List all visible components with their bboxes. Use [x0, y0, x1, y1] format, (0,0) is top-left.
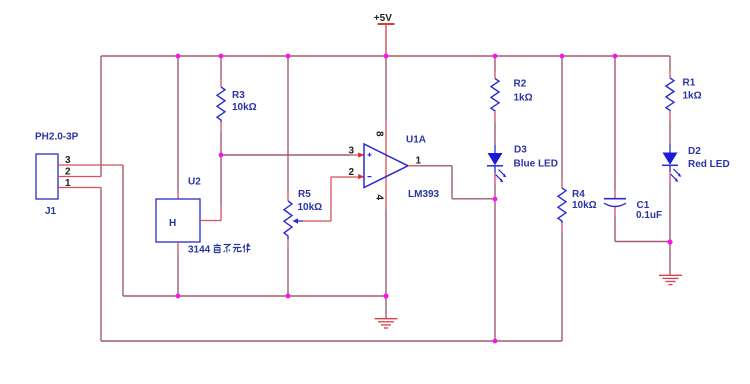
svg-text:1: 1 — [416, 156, 422, 167]
resistor R1 — [666, 78, 702, 112]
svg-text:LM393: LM393 — [408, 189, 440, 200]
svg-text:U1A: U1A — [406, 135, 426, 146]
svg-text:3: 3 — [349, 146, 355, 157]
wire U2 bottom — [177, 242, 179, 253]
svg-text:R1: R1 — [683, 78, 696, 89]
wire R2 top — [494, 56, 496, 71]
svg-text:R2: R2 — [514, 79, 527, 90]
svg-text:U2: U2 — [188, 177, 201, 188]
svg-text:D3: D3 — [514, 145, 527, 156]
capacitor C1 — [604, 199, 662, 221]
svg-text:3: 3 — [65, 155, 71, 166]
wire U2 top — [177, 56, 179, 190]
svg-text:J1: J1 — [45, 206, 57, 217]
svg-text:0.1uF: 0.1uF — [636, 210, 662, 221]
wire node A to op-amp +in — [221, 154, 350, 156]
svg-text:4: 4 — [374, 195, 385, 201]
wire C1 bottom — [614, 207, 616, 216]
svg-text:2: 2 — [349, 167, 355, 178]
wire left vertical +5V to J1 pin2 — [100, 56, 102, 177]
potentiometer R5 — [284, 189, 322, 239]
svg-text:8: 8 — [374, 131, 385, 137]
resistor R3 — [217, 87, 257, 122]
svg-text:10kΩ: 10kΩ — [298, 202, 323, 213]
LED D2 — [662, 145, 730, 182]
svg-text:1kΩ: 1kΩ — [514, 93, 533, 104]
hall sensor U2 — [156, 177, 201, 243]
wire R1 top — [669, 56, 671, 70]
wire R5 top — [287, 56, 289, 193]
wire R5 wiper to op-amp -in — [303, 177, 364, 221]
svg-text:D2: D2 — [688, 146, 701, 157]
LED D3 — [487, 145, 558, 183]
svg-text:R4: R4 — [572, 189, 585, 200]
wire J1 pin 2 — [58, 176, 101, 178]
resistor R2 — [491, 79, 533, 112]
wire R4 top — [561, 56, 563, 180]
ground right — [659, 275, 682, 284]
wire J1 pin 1 — [58, 187, 101, 189]
wire R5 bottom — [287, 239, 289, 247]
wire R3 bottom — [220, 122, 222, 132]
svg-text:Blue LED: Blue LED — [514, 159, 558, 170]
power +5V symbol — [374, 13, 395, 56]
svg-text:R5: R5 — [298, 189, 311, 200]
resistor R4 — [558, 188, 597, 223]
wire C1 top — [614, 56, 616, 190]
wire ground stub mid — [385, 296, 387, 318]
op-amp U1A — [349, 131, 440, 201]
svg-text:H: H — [169, 218, 176, 229]
wire U2 output to node A — [200, 220, 221, 222]
svg-text:PH2.0-3P: PH2.0-3P — [35, 132, 79, 143]
svg-text:10kΩ: 10kΩ — [232, 102, 257, 113]
wire J1 pin3 vertical — [122, 165, 124, 296]
connector J1 — [35, 132, 79, 218]
svg-text:1: 1 — [65, 178, 71, 189]
svg-text:R3: R3 — [232, 90, 245, 101]
wire J1 pin1 down left vertical — [100, 188, 102, 342]
label 3144 hall element — [188, 244, 250, 256]
wire J1 pin 3 — [58, 164, 123, 166]
wire D2 cathode down — [669, 172, 671, 182]
svg-text:3144: 3144 — [188, 245, 211, 256]
svg-text:Red LED: Red LED — [688, 159, 730, 170]
svg-text:10kΩ: 10kΩ — [572, 200, 597, 211]
wire output node down to bottom line — [494, 199, 496, 341]
wire R1 to D2 — [669, 111, 671, 122]
wire mid ground bus — [123, 295, 386, 297]
wire R2 to D3 — [494, 111, 496, 122]
wire top +5V bus — [101, 55, 670, 57]
ground mid — [375, 319, 398, 328]
wire op-amp output — [408, 165, 420, 167]
svg-text:2: 2 — [65, 167, 71, 178]
wire D3 cathode to output node — [494, 173, 496, 183]
wire bottom output line — [101, 340, 562, 342]
wire R4 bottom — [561, 223, 563, 231]
svg-text:+5V: +5V — [374, 13, 392, 24]
svg-text:1kΩ: 1kΩ — [683, 91, 702, 102]
wire R3 top — [220, 56, 222, 80]
wire ground stub right — [669, 242, 671, 275]
wire op-amp power rail — [385, 56, 387, 120]
